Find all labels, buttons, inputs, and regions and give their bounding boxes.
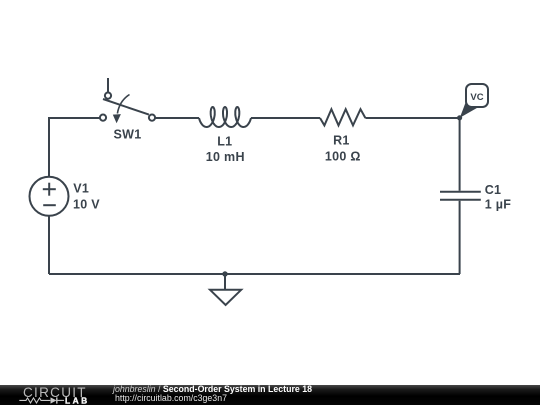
wire right vertical upper (node VC to C1 top plate)	[459, 118, 461, 191]
wire resistor to node VC	[365, 117, 459, 119]
node VC junction dot	[457, 115, 462, 120]
svg-text:10 V: 10 V	[73, 198, 100, 212]
svg-text:VC: VC	[470, 92, 483, 103]
wire switch pole to inductor	[155, 117, 199, 119]
label V1	[73, 182, 89, 196]
value 10 mH	[206, 150, 245, 164]
ground junction dot	[222, 271, 227, 276]
inductor L1 coil	[199, 107, 251, 127]
switch SW1 arrowhead	[113, 114, 121, 123]
wire inductor to resistor	[251, 117, 320, 119]
wire left vertical upper (corner to V1 top)	[48, 117, 50, 177]
wire bottom horizontal	[49, 273, 460, 275]
wire right vertical lower (corner to C1 bottom plate)	[459, 201, 461, 274]
wire stub above switch throw A	[107, 78, 109, 92]
value 10 V	[73, 198, 100, 212]
footer url line	[115, 393, 227, 403]
label C1	[485, 183, 502, 197]
probe VC text	[470, 92, 483, 103]
V1 plus sign	[43, 183, 56, 196]
capacitor C1 plates	[440, 192, 481, 200]
label R1	[333, 134, 350, 148]
CircuitLab logo symbol and LAB	[18, 396, 110, 405]
resistor R1 zigzag	[320, 109, 365, 125]
svg-text:V1: V1	[73, 182, 89, 196]
CircuitLab logo wordmark CIRCUIT	[23, 385, 87, 400]
wire left vertical lower (V1 bottom to corner)	[48, 215, 50, 274]
voltage source V1 circle	[30, 177, 69, 216]
svg-text:1 µF: 1 µF	[485, 197, 512, 211]
probe VC pointer wedge	[460, 103, 479, 118]
svg-text:C1: C1	[485, 183, 502, 197]
svg-text:SW1: SW1	[114, 128, 142, 142]
svg-text:R1: R1	[333, 134, 350, 148]
ground stub wire	[224, 274, 226, 290]
value 100 &#937;	[325, 150, 361, 164]
switch SW1	[100, 93, 155, 121]
svg-text:LAB: LAB	[65, 396, 90, 405]
label L1	[217, 135, 232, 149]
svg-text:10 mH: 10 mH	[206, 150, 245, 164]
footer title line	[113, 384, 312, 394]
svg-text:L1: L1	[217, 135, 232, 149]
footer bar	[0, 385, 540, 405]
ground symbol triangle	[210, 290, 241, 305]
V1 minus sign	[43, 204, 56, 206]
wire top-left horizontal (switch throw B to corner)	[49, 117, 100, 119]
svg-text:100 Ω: 100 Ω	[325, 150, 361, 164]
value 1 uF	[485, 197, 512, 211]
probe VC box	[466, 84, 488, 107]
label SW1	[114, 128, 142, 142]
